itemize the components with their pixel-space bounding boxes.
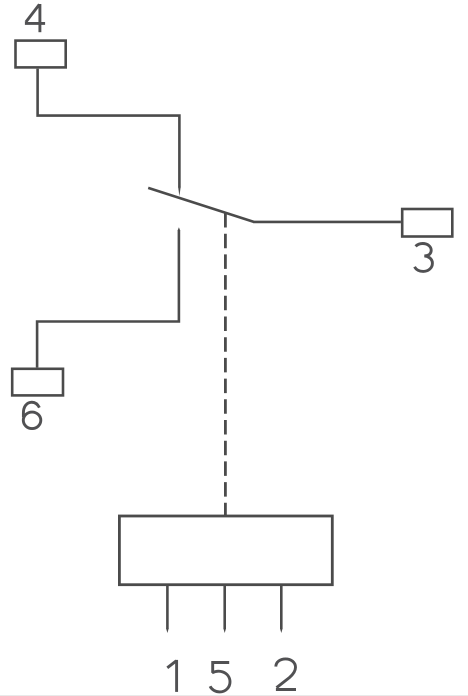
terminal label 6 — [23, 402, 41, 428]
pin label 5 — [210, 663, 230, 692]
terminal 6 — [12, 369, 63, 396]
terminal label 4 — [25, 4, 45, 32]
pin 5 tip — [223, 629, 226, 634]
relay coil box — [119, 516, 332, 585]
terminal 4 — [16, 41, 66, 68]
wire taper tip at switch common — [178, 187, 181, 196]
pin 1 lead — [166, 586, 169, 629]
wire from open contact to terminal 6 — [37, 230, 179, 367]
pin 1 tip — [166, 629, 169, 634]
pin 2 tip — [280, 629, 283, 634]
dashed actuation link from blade to coil box — [224, 213, 227, 516]
wire from terminal 4 to switch common — [38, 69, 180, 188]
bottom edge artifact line — [0, 695, 468, 696]
pin label 2 — [276, 659, 296, 690]
wire taper tip at open contact — [178, 227, 181, 230]
terminal 3 — [402, 209, 452, 237]
terminal label 3 — [415, 244, 433, 272]
pin label 1 — [167, 660, 176, 692]
switch blade (movable contact) — [148, 188, 254, 222]
pin 2 lead — [280, 586, 283, 629]
pin 5 lead — [223, 586, 226, 629]
wire from blade to terminal 3 — [253, 221, 401, 224]
